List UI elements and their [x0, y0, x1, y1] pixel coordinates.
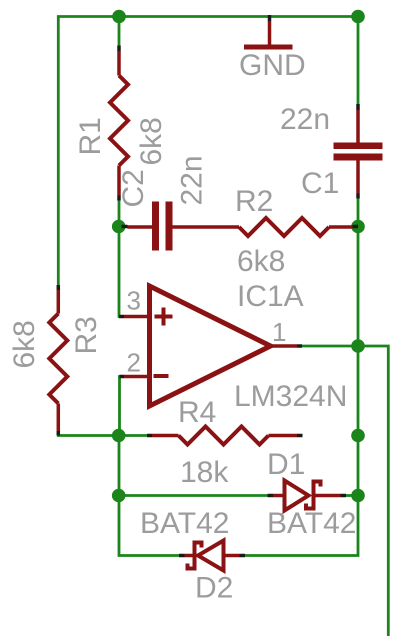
svg-text:22n: 22n [280, 103, 330, 136]
value 22n (C2) [176, 155, 209, 205]
pin 2 number [127, 348, 141, 378]
wire D1 row left [119, 494, 268, 497]
wire pin2 feedback [120, 377, 123, 436]
capacitor C1 [334, 104, 383, 199]
node top right junction [351, 10, 365, 24]
svg-text:C2: C2 [117, 169, 150, 207]
wire right rail top [357, 17, 360, 106]
wire top rail [58, 17, 358, 286]
node C2 junction [112, 220, 126, 234]
pin 3 number [127, 286, 141, 316]
resistor R4 [147, 427, 303, 445]
diode D1 [268, 480, 347, 511]
svg-text:2: 2 [127, 348, 141, 378]
wire node C2 to pin3 [119, 227, 122, 317]
wire op-amp output [302, 345, 358, 348]
wire left column down to D rows [119, 436, 179, 556]
svg-text:R1: R1 [74, 117, 107, 155]
label C1 [301, 167, 339, 200]
svg-text:R3: R3 [70, 316, 103, 354]
value 18k [180, 456, 229, 489]
label D1 [267, 448, 305, 481]
wire D1 row right [346, 494, 358, 497]
resistor R1 [110, 46, 128, 201]
node R4 left junction [112, 429, 126, 443]
node D1 right junction [351, 489, 365, 503]
wire right rail mid [357, 198, 360, 496]
svg-text:GND: GND [239, 49, 306, 82]
svg-text:18k: 18k [180, 456, 229, 489]
pin 3 lead [119, 315, 148, 319]
label C2 [117, 169, 150, 207]
node R2/C1 junction [351, 220, 365, 234]
value BAT42 (D2) [140, 507, 230, 540]
pin 2 lead [120, 375, 149, 379]
svg-text:6k8: 6k8 [237, 245, 285, 278]
svg-text:C1: C1 [301, 167, 339, 200]
label R2 [235, 185, 273, 218]
wire output to right edge rail [358, 346, 388, 636]
svg-text:1: 1 [272, 317, 286, 347]
value 6k8 (R1) [135, 117, 168, 165]
node output junction [351, 339, 365, 353]
label R1 [74, 117, 107, 155]
svg-text:6k8: 6k8 [135, 117, 168, 165]
label IC1A [237, 280, 304, 313]
svg-text:BAT42: BAT42 [267, 507, 357, 540]
svg-text:D2: D2 [195, 572, 233, 605]
op-amp U1 IC1A [150, 286, 271, 406]
wire R1 column bottom [118, 198, 121, 227]
ground [244, 15, 293, 50]
node top R1 junction [112, 10, 126, 24]
wire left rail lower [58, 430, 119, 436]
node D1 left junction [112, 489, 126, 503]
svg-text:6k8: 6k8 [8, 320, 41, 368]
value BAT42 (D1) [267, 507, 357, 540]
svg-text:D1: D1 [267, 448, 305, 481]
svg-text:LM324N: LM324N [234, 380, 347, 413]
label R4 [178, 396, 216, 429]
diode D2 [179, 541, 245, 571]
node R4 right junction [351, 429, 365, 443]
label D2 [195, 572, 233, 605]
svg-text:IC1A: IC1A [237, 280, 304, 313]
value 22n (C1) [280, 103, 330, 136]
wire R1 column top [118, 17, 121, 48]
svg-text:R4: R4 [178, 396, 216, 429]
label R3 [70, 316, 103, 354]
svg-text:R2: R2 [235, 185, 273, 218]
wire R4 left [119, 434, 147, 437]
pin 1 number [272, 317, 286, 347]
label GND [239, 49, 306, 82]
value 6k8 (R2) [237, 245, 285, 278]
capacitor C2 [122, 202, 240, 251]
svg-text:BAT42: BAT42 [140, 507, 230, 540]
svg-text:3: 3 [127, 286, 141, 316]
value 6k8 (R3) [8, 320, 41, 368]
resistor R3 [49, 285, 67, 436]
svg-text:22n: 22n [176, 155, 209, 205]
resistor R2 [239, 218, 358, 236]
wire D2 row right [245, 496, 358, 556]
pin 1 output lead [271, 344, 303, 348]
value LM324N [234, 380, 347, 413]
